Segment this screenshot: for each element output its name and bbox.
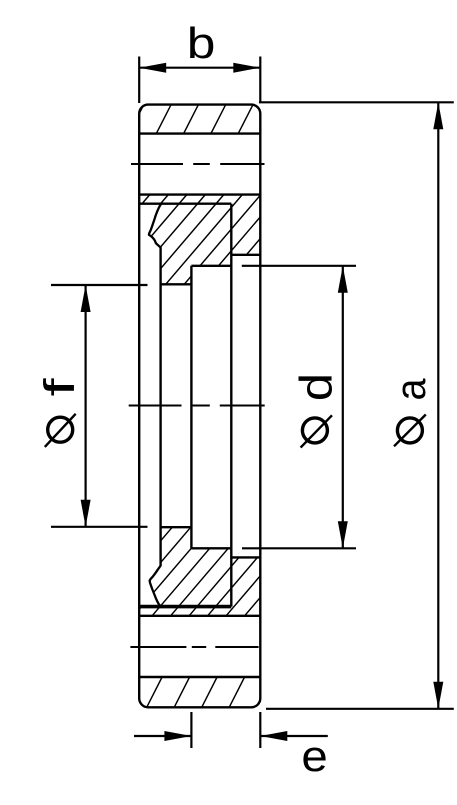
dim e: right arrow (points left) (260, 731, 287, 741)
dim d: bottom extension line (242, 547, 356, 549)
dim b: right extension line (259, 57, 261, 104)
upper face step line (139, 202, 231, 204)
dim f: top extension line (51, 284, 148, 286)
label diameter symbol a (397, 418, 422, 443)
bore edge V5 (230, 204, 232, 607)
dim d: dimension line (342, 266, 344, 549)
svg-text:a: a (387, 378, 434, 401)
bore edge V3 (159, 247, 161, 566)
bore edge V4 (190, 266, 192, 549)
label diameter symbol d (302, 418, 327, 443)
bolt hole lower: top edge (139, 615, 260, 617)
flange outer profile (rounded rect) (139, 105, 260, 708)
dim e: right tail (260, 735, 328, 737)
dim f: bottom arrow (81, 500, 91, 527)
upper bore d edge (191, 265, 231, 267)
lower recess step edge (231, 556, 260, 558)
svg-text:e: e (301, 732, 327, 781)
dim e: left extension line (190, 712, 192, 748)
dim b: dimension line (139, 67, 260, 69)
svg-text:d: d (291, 373, 342, 401)
dim f: dimension line (84, 285, 86, 527)
dim d: bottom arrow (338, 521, 348, 548)
hatching: flange top rim section (129, 105, 253, 134)
dim a: top extension line (259, 101, 454, 103)
dim f: bottom extension line (51, 526, 148, 528)
upper bore f edge (161, 283, 192, 285)
label diameter symbol f (48, 417, 73, 442)
hatching: flange bottom rim section (147, 677, 272, 707)
bolt hole upper: bottom edge (139, 193, 260, 195)
upper recess step edge (231, 254, 260, 256)
svg-text:f: f (35, 378, 84, 397)
bolt hole lower: bottom edge (139, 676, 260, 678)
lower face step line (thick) (139, 605, 231, 609)
dim b: right arrow (233, 63, 260, 73)
dim a: dimension line (437, 102, 439, 709)
lower bore d edge (191, 547, 231, 549)
main axis centerline (129, 405, 182, 407)
lower groove contour (150, 566, 161, 607)
dim f: top arrow (81, 285, 91, 312)
dim b: left extension line (138, 57, 140, 104)
hatching: upper web section (73, 195, 335, 285)
dim a: bottom extension line (266, 708, 454, 710)
dim a: top arrow (433, 102, 443, 129)
lower bore f edge (161, 526, 192, 528)
upper groove contour (149, 204, 161, 248)
dim e: left arrow (points right) (164, 731, 191, 741)
dim e: right extension line (259, 712, 261, 748)
upper bolt hole centerline (131, 163, 183, 165)
dim d: top extension line (242, 265, 356, 267)
lower bolt hole centerline (130, 646, 186, 648)
dim b: left arrow (139, 63, 166, 73)
hatching: lower web section (78, 527, 320, 616)
svg-text:b: b (187, 19, 216, 68)
dim d: top arrow (338, 266, 348, 293)
dim a: bottom arrow (433, 682, 443, 709)
dim e: left tail (134, 735, 191, 737)
bolt hole upper: top edge (139, 132, 260, 134)
